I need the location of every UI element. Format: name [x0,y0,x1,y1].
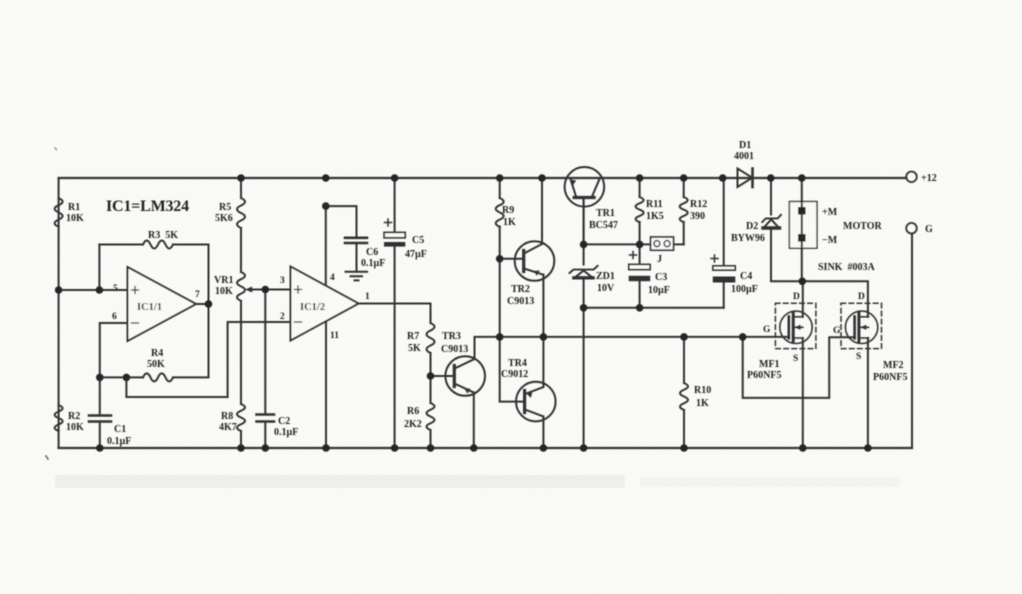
junction dots mid nodes [55,202,806,381]
wire R4 right segment [173,304,209,377]
wire R3 feedback right leg to IC1/1 output [208,245,210,305]
wire TR3 collector riser [475,337,500,359]
wire R4 left segment [100,376,143,378]
wire R11 column [639,178,641,244]
jumper J [651,237,674,250]
wire R3 feedback loop left leg [98,245,100,291]
wire MF2 gate loop [743,337,855,398]
wire MF1 source to ground [802,338,804,448]
scan speck top-left [55,148,57,150]
wire C3 branch [639,244,641,307]
resistor R2 [55,405,63,431]
wire MF1 drain [802,281,804,317]
bottom ground rail [59,447,912,449]
diode D1 [738,169,753,188]
wire TR4 emitter [542,337,544,387]
terminal +12 [906,172,917,183]
wire gate bus [500,336,789,338]
wire IC1/1 +input (pin5) [59,289,128,291]
wire R4 tap down-right to IC1/2 pin2 [126,322,290,397]
wire C1 branch [99,377,101,448]
wire ground link C3/C4 minus [584,307,724,309]
motor M [789,202,817,249]
resistor R5 [237,198,245,228]
wire C5 column (supply filter) [394,178,396,448]
wire D2 column [771,178,802,281]
resistor R3 [143,241,173,249]
wire IC1/2 pin4 to bypass cap [326,206,357,286]
transistor Q2 TR2 [515,241,555,281]
wire C2 branch [264,290,266,449]
top +12 supply rail [59,177,907,179]
wire TR2 emitter to node [542,275,544,337]
wire TR2 base [500,258,524,260]
wire TR3 emitter drop [473,393,475,449]
terminal G [906,223,917,234]
wire IC1/2 output to R7 [359,304,431,377]
MOSFET MF2 [841,303,882,348]
capacitor C5 [384,219,405,247]
junction dots bottom rail [96,444,872,452]
wire TR3 base [431,375,455,377]
resistor R6 [427,403,435,430]
wire R6 column [430,376,432,448]
wire VR1 wiper to IC1/2 pin3 [248,289,291,291]
wire TR4 collector [542,417,544,449]
wire TR1 base drop [583,199,585,245]
junction dots top rail [237,174,805,182]
resistor R9 [496,198,504,227]
transistor Q3 TR3 [445,356,485,396]
wire IC1/2 pin11 to ground [325,321,327,448]
wire R3 feedback top [99,244,143,246]
resistor R12 [680,197,688,222]
capacitor C6 [345,238,367,243]
MOSFET MF1 [775,303,816,348]
capacitor C3 [629,252,651,282]
capacitor C4 [711,255,735,283]
resistor R10 [680,383,688,410]
capacitor C1 [89,416,111,422]
op-amp U1 IC1/2 [291,267,359,341]
zener ZD1 [570,266,598,278]
transistor Q1 TR1 [565,167,605,244]
wire TR4 base branch [500,337,525,402]
wire TR2 collector riser [541,178,543,244]
potentiometer VR1 [237,272,265,301]
ground [346,272,368,281]
resistor R7 [427,323,435,353]
wire zener anode to ground [583,279,585,448]
resistor R4 [143,373,173,381]
resistor R8 [237,404,245,431]
wire motor feed [801,178,803,281]
wire R5/VR1/R8 column [240,178,242,448]
wire node row TR1/R11/jumper [584,243,684,245]
wire left vertical bus (R1/R2 column) [58,178,60,448]
transistor Q4 TR4 [516,382,556,422]
capacitor C2 [257,415,275,422]
resistor R11 [636,197,644,222]
wire MF2 source to ground [867,344,869,449]
wire C4 column [723,178,725,308]
wire ground rail to G terminal [911,234,913,449]
wire R12 column [683,178,685,244]
wire R10 branch [683,337,685,448]
diode D2 [762,215,781,228]
wire R9 column [499,178,501,337]
op-amp U1 IC1/1 [128,267,209,341]
wire IC1/1 -input (pin6) [100,323,128,377]
scan speck bottom-left [46,456,48,459]
wire TR1 node to zener [583,244,585,264]
wire MOSFET drain link [802,281,868,311]
resistor R1 [55,198,63,227]
